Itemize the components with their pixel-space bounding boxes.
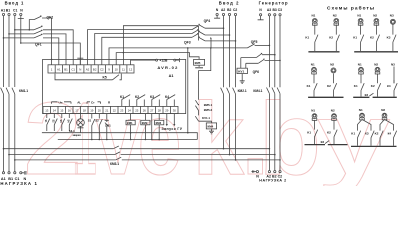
terminal B2 input2 [228, 13, 230, 15]
scheme1 lamp N2 [333, 14, 339, 26]
svg-text:K3: K3 [150, 95, 154, 99]
bus phase A bottom [3, 146, 271, 150]
svg-text:Запуск ГУ: Запуск ГУ [162, 127, 183, 131]
terminal N input2 [214, 13, 220, 18]
svg-text:Ввод 2: Ввод 2 [219, 1, 240, 6]
breaker QF1 [3, 26, 74, 65]
svg-text:Uн: Uн [59, 100, 63, 104]
wire cell 27 drop [151, 114, 153, 141]
scheme2 contact K1 [353, 25, 364, 52]
scheme6 contact K3 [362, 119, 374, 145]
svg-text:К3: К3 [365, 93, 369, 97]
svg-text:19: 19 [90, 109, 94, 113]
label Ст group [87, 100, 101, 104]
breaker QF5 [247, 40, 270, 48]
svg-text:QF6: QF6 [253, 70, 260, 74]
svg-text:Ст: Ст [91, 100, 95, 104]
switch S1 [88, 114, 95, 140]
neutral mark above cell N [77, 58, 83, 65]
terminal N input1 [18, 13, 24, 18]
terminal B3 gen [274, 14, 276, 16]
svg-text:К3: К3 [321, 140, 325, 144]
scheme6 lamp N1 [359, 108, 365, 120]
svg-text:B2: B2 [93, 67, 97, 71]
wire cell 9 gen-sense run [109, 48, 248, 65]
svg-text:N2: N2 [331, 109, 335, 113]
scheme2 bus [354, 51, 398, 53]
contact KM5.1 [195, 100, 212, 115]
svg-text:A1: A1 [169, 74, 174, 78]
scheme2 lamp N2 [373, 14, 379, 26]
watermark 21vek.by [24, 80, 391, 197]
svg-text:N1: N1 [311, 62, 315, 66]
svg-text:14: 14 [53, 109, 57, 113]
svg-text:S1: S1 [88, 119, 92, 123]
scheme2 generator N3 [390, 14, 396, 25]
scheme2 lamp N1 [357, 14, 363, 26]
svg-text:К4: К4 [388, 132, 392, 136]
svg-text:A2: A2 [86, 67, 90, 71]
svg-text:C3: C3 [278, 8, 282, 12]
scheme1 contact K2 [329, 25, 339, 52]
svg-text:КМ4.1: КМ4.1 [253, 89, 262, 93]
svg-text:N1: N1 [358, 62, 362, 66]
svg-text:KV1: KV1 [238, 70, 244, 74]
bus phase B bottom [8, 152, 275, 156]
label R [108, 100, 111, 104]
svg-text:K2: K2 [327, 84, 331, 88]
terminal B1 input1 [8, 13, 10, 15]
svg-text:КМ2: КМ2 [142, 121, 148, 125]
svg-text:29: 29 [165, 109, 169, 113]
svg-text:22: 22 [113, 109, 117, 113]
switch S2 [95, 114, 102, 140]
scheme1 bus [308, 51, 339, 53]
svg-text:QF2: QF2 [47, 16, 54, 20]
svg-text:N: N [79, 67, 81, 71]
wire cell 11 run to QF node [123, 26, 198, 65]
svg-text:КМ3.1: КМ3.1 [110, 162, 119, 166]
wire cell T2 +12V supply [131, 58, 180, 65]
svg-text:K2: K2 [135, 95, 139, 99]
top terminal strip of A1 [48, 65, 134, 73]
svg-text:A2: A2 [221, 8, 225, 12]
svg-text:N2: N2 [373, 14, 377, 18]
svg-text:QF5: QF5 [251, 40, 258, 44]
wire N1 to cell N [20, 42, 80, 65]
svg-text:Схемы работы: Схемы работы [327, 5, 375, 12]
node Ввод 1 title [1, 1, 24, 13]
terminal A2 input2 [222, 13, 224, 15]
contactor coil KM5 [194, 59, 205, 68]
scheme4 contact K4 [387, 80, 397, 97]
svg-text:КМ5.1: КМ5.1 [204, 103, 213, 107]
wire neutral N1 vertical [20, 16, 22, 43]
svg-text:18: 18 [83, 109, 87, 113]
svg-text:SB1: SB1 [105, 124, 111, 128]
scheme4 contact K1 [354, 74, 364, 97]
terminal N gen [258, 14, 264, 20]
svg-text:N3: N3 [391, 62, 395, 66]
scheme2 contact K3 [387, 25, 397, 52]
svg-text:N2: N2 [374, 62, 378, 66]
svg-text:авария: авария [73, 135, 82, 137]
svg-text:11: 11 [122, 67, 125, 71]
relay contact K4 [165, 95, 175, 107]
wire cell 10 run to KM5 [116, 52, 199, 65]
scheme6 contact K4 [385, 119, 397, 145]
svg-text:K1: K1 [305, 36, 309, 40]
scheme3 bus [308, 96, 343, 98]
svg-text:AVR-02: AVR-02 [157, 65, 178, 70]
bus phase C bottom [14, 157, 281, 161]
relay contact K5 [55, 74, 121, 80]
svg-text:КМ5.2: КМ5.2 [204, 108, 213, 112]
contactor contact KM1.1 [1, 88, 29, 94]
svg-text:15: 15 [60, 109, 64, 113]
label AL [77, 100, 81, 104]
breaker QF2 [29, 16, 54, 65]
load 1 terminals [0, 171, 38, 186]
svg-text:+12В: +12В [159, 58, 168, 62]
scheme5 lamp N2 [331, 109, 337, 121]
scheme4 buses [353, 96, 397, 98]
svg-text:B1: B1 [64, 67, 68, 71]
svg-text:20: 20 [98, 109, 102, 113]
scheme4 lamp N1 [358, 62, 364, 74]
scheme3 contact K2 [327, 74, 337, 97]
scheme6 bus [351, 145, 397, 147]
svg-text:B2: B2 [227, 8, 231, 12]
jumper S contacts under 13-16 [44, 114, 72, 131]
svg-text:КМ1.1: КМ1.1 [19, 89, 28, 93]
svg-text:B1: B1 [6, 9, 10, 13]
wire arrow feed node [210, 37, 212, 48]
wire phase A1 vertical [3, 16, 5, 172]
svg-text:K2: K2 [370, 36, 374, 40]
svg-text:N1: N1 [357, 14, 361, 18]
svg-text:К3: К3 [365, 132, 369, 136]
svg-text:A1: A1 [57, 67, 61, 71]
breaker QF6 [241, 53, 281, 74]
svg-text:17: 17 [75, 109, 79, 113]
scheme2 contact K2 [370, 25, 380, 52]
terminal A3 gen [268, 14, 270, 16]
bottom terminal strip of A1 [43, 106, 178, 113]
svg-text:N1: N1 [359, 108, 363, 112]
svg-text:A1: A1 [1, 9, 5, 13]
svg-text:КМ1: КМ1 [127, 121, 133, 125]
svg-text:N2: N2 [381, 108, 385, 112]
svg-text:C1: C1 [13, 9, 17, 13]
svg-text:24: 24 [128, 109, 132, 113]
contactor contact KM3.1 label [110, 162, 119, 166]
scheme5 lamp N1 [311, 109, 317, 121]
svg-text:K2: K2 [327, 130, 331, 134]
svg-text:27: 27 [150, 109, 154, 113]
svg-text:A3: A3 [267, 8, 271, 12]
scheme4 lamp N2 [374, 62, 380, 74]
svg-text:К4: К4 [387, 84, 391, 88]
relay contact K2 [135, 95, 145, 107]
svg-text:23: 23 [120, 109, 124, 113]
svg-text:25: 25 [135, 109, 139, 113]
ground under KM4 [209, 129, 214, 134]
wire phase B1 vertical [8, 16, 10, 172]
svg-text:N3: N3 [390, 14, 394, 18]
terminal C2 input2 [234, 13, 236, 15]
contactor coil KM3 [155, 114, 164, 141]
svg-text:S2: S2 [95, 119, 99, 123]
wire phase C1 vertical [14, 16, 16, 172]
output Запуск ГУ arrows [162, 114, 183, 131]
scheme4 node N3 [391, 62, 395, 83]
scheme3 lamp N1 [311, 62, 317, 74]
terminal A1 input1 [2, 13, 4, 15]
contact KV1.1 [195, 116, 211, 123]
svg-text:K1: K1 [307, 84, 311, 88]
scheme5 contact K2 [327, 120, 337, 144]
breaker QF3 [184, 25, 199, 44]
svg-text:K1: K1 [353, 36, 357, 40]
relay contact K3 [150, 95, 160, 107]
svg-text:НАГРУЗКА 1: НАГРУЗКА 1 [0, 181, 38, 186]
svg-text:N1: N1 [312, 14, 316, 18]
scheme5 contact K1 [307, 120, 318, 144]
svg-text:K2: K2 [329, 36, 333, 40]
svg-text:30: 30 [173, 109, 177, 113]
svg-text:KV1.1: KV1.1 [202, 116, 210, 120]
svg-text:КМ5: КМ5 [195, 61, 201, 65]
scheme4 contact K2 [371, 74, 381, 97]
node Генератор title [259, 1, 289, 12]
svg-text:K2: K2 [371, 84, 375, 88]
wire cell C2 sense run [102, 37, 192, 65]
contactor coil KM1 [126, 114, 135, 141]
scheme4 contact K3 bridge [365, 93, 374, 97]
svg-text:Ввод 1: Ввод 1 [5, 1, 25, 6]
svg-text:КМ2.1: КМ2.1 [238, 89, 247, 93]
button SB1 [105, 114, 111, 140]
svg-text:N2: N2 [330, 62, 334, 66]
scheme6 lamp N2 [381, 108, 387, 120]
breaker QF4 [198, 19, 236, 42]
svg-text:K1: K1 [354, 84, 358, 88]
scheme1 lamp N1 [312, 14, 318, 26]
svg-text:K5: K5 [103, 76, 107, 80]
scheme1 contact K1 [305, 25, 318, 52]
wire cell A2 sense run [88, 30, 193, 65]
svg-text:12: 12 [129, 67, 133, 71]
svg-text:B3: B3 [273, 8, 277, 12]
svg-text:C1: C1 [71, 67, 75, 71]
svg-text:C2: C2 [233, 8, 237, 12]
terminal C1 input1 [14, 13, 16, 15]
svg-text:КМ3: КМ3 [156, 121, 162, 125]
contactor contact KM4.1 [253, 88, 280, 94]
wire N rail [42, 133, 197, 141]
wire aux drop right of box [187, 47, 189, 133]
svg-text:k: k [193, 80, 245, 186]
label Uн group [52, 100, 72, 104]
svg-text:26: 26 [143, 109, 147, 113]
svg-text:10: 10 [115, 67, 119, 71]
svg-text:НАГРУЗКА 2: НАГРУЗКА 2 [259, 179, 286, 183]
svg-text:28: 28 [158, 109, 162, 113]
wire input2 phase verticals [224, 16, 236, 160]
svg-text:K1: K1 [120, 95, 124, 99]
svg-text:Генератор: Генератор [259, 1, 289, 6]
load 2 terminals [251, 170, 286, 182]
node Ввод 2 title [216, 1, 240, 12]
scheme3 generator N2 [330, 62, 336, 73]
svg-text:v: v [96, 80, 141, 186]
contactor coil KM2 [141, 114, 150, 141]
lamp HL1 [69, 114, 84, 137]
contactor contact KM2.1 [221, 88, 247, 94]
contactor coil KM4 [206, 123, 216, 129]
svg-text:K4: K4 [165, 95, 169, 99]
svg-text:КМ4: КМ4 [208, 125, 214, 129]
svg-text:K2: K2 [375, 132, 379, 136]
svg-text:QF3: QF3 [184, 41, 191, 45]
svg-text:AL: AL [77, 100, 81, 104]
svg-text:13: 13 [45, 109, 49, 113]
wire gen phase verticals [269, 16, 280, 171]
svg-text:C2: C2 [100, 67, 104, 71]
scheme6 contact K2 [375, 119, 385, 145]
scheme5 buses [305, 144, 348, 146]
relay KV1 [237, 68, 247, 83]
title Схемы работы [327, 5, 375, 12]
svg-text:21: 21 [105, 109, 109, 113]
wire KM5-branch column [199, 47, 212, 100]
svg-text:K3: K3 [387, 36, 391, 40]
terminal C3 gen [279, 14, 281, 16]
wire cell B2 sense run [95, 34, 192, 65]
svg-text:K1: K1 [307, 130, 311, 134]
scheme5 contact K3 bridge [321, 140, 330, 144]
scheme6 contact K1 [351, 119, 362, 145]
svg-text:QF4: QF4 [204, 19, 211, 23]
svg-text:N1: N1 [311, 109, 315, 113]
svg-text:K1: K1 [351, 132, 355, 136]
relay contact K1 [120, 95, 130, 107]
svg-text:16: 16 [68, 109, 72, 113]
scheme3 contact K1 [307, 74, 318, 97]
svg-text:N2: N2 [333, 14, 337, 18]
controller A1 AVR-02 box [43, 59, 186, 113]
